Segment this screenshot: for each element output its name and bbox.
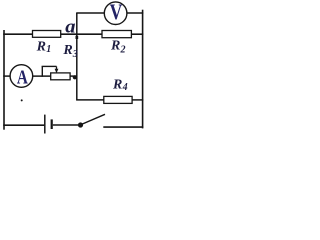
voltmeter V letter xyxy=(110,0,123,24)
svg-text:a: a xyxy=(65,16,75,37)
wire voltmeter branch right xyxy=(127,12,143,14)
svg-text:A: A xyxy=(17,65,28,88)
stray speck dot xyxy=(21,99,23,101)
switch pivot dot xyxy=(78,122,83,127)
wire R4 branch horizontal xyxy=(76,99,104,101)
wire bottom left segment xyxy=(3,124,44,126)
wire voltmeter branch left xyxy=(76,12,104,14)
node a vertical wire xyxy=(76,13,78,100)
wire ammeter branch left xyxy=(3,75,10,77)
wire top main left segment xyxy=(3,33,32,35)
resistor R2 xyxy=(102,31,131,38)
wire left vertical xyxy=(3,30,5,130)
ammeter A circle xyxy=(10,65,33,88)
wire rheostat to node xyxy=(70,75,77,77)
wire battery to switch xyxy=(53,124,79,126)
battery short plate xyxy=(51,119,53,129)
wire right vertical xyxy=(142,10,144,129)
node a junction dot xyxy=(76,36,79,39)
ammeter A letter xyxy=(17,65,28,88)
rheostat R3 slider bar xyxy=(42,65,57,67)
wire top main right segment xyxy=(131,33,143,35)
wire R4 to right vertical xyxy=(132,99,143,101)
resistor R1 xyxy=(33,31,61,38)
wire ammeter to rheostat xyxy=(33,75,51,77)
wire bottom right tail xyxy=(103,126,143,128)
svg-text:V: V xyxy=(110,0,123,24)
battery long plate xyxy=(44,115,46,134)
label a xyxy=(65,16,75,37)
junction dot rheostat node xyxy=(73,75,77,79)
rheostat R3 box xyxy=(51,73,70,80)
resistor R4 xyxy=(104,96,132,103)
voltmeter V circle xyxy=(104,2,127,25)
rheostat R3 slider stub xyxy=(41,66,43,76)
switch lever xyxy=(82,114,106,124)
rheostat R3 slider arrow xyxy=(56,66,58,71)
wire top main middle segment xyxy=(61,33,102,35)
